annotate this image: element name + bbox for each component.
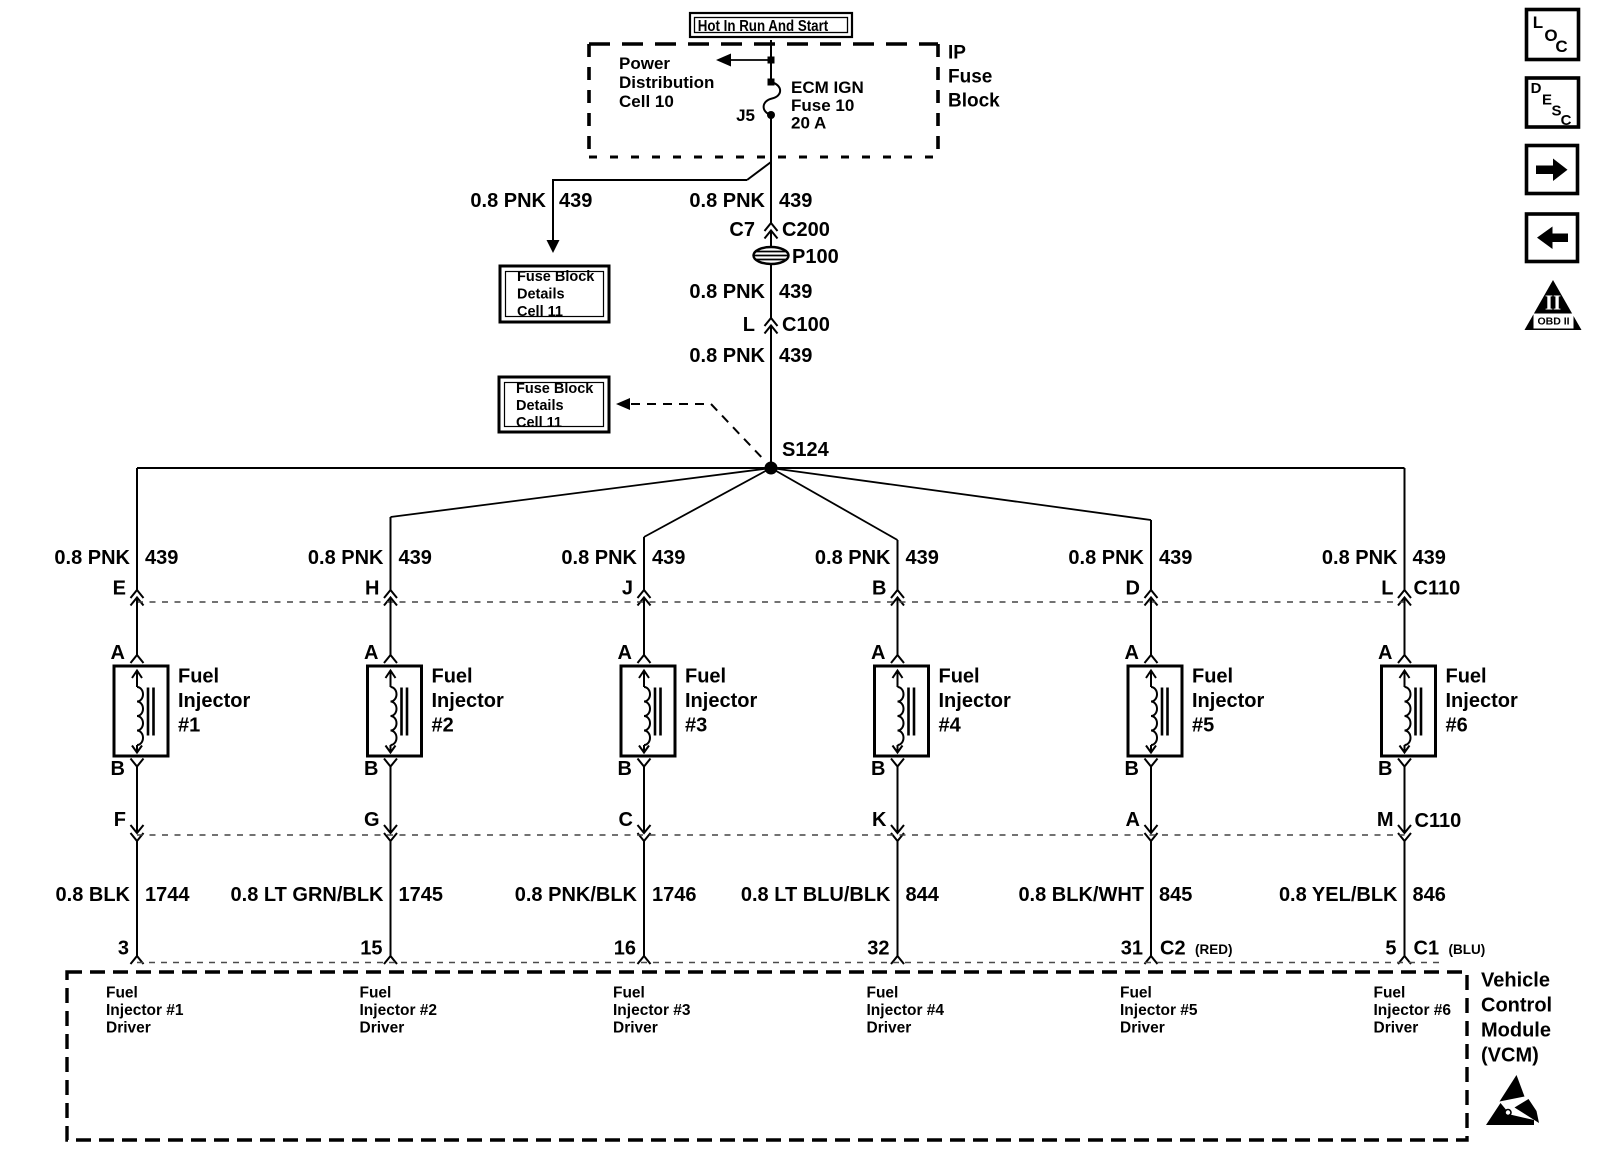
branch 3 feed wire (PNK 439) xyxy=(643,537,645,590)
splice S124 xyxy=(765,462,778,475)
fuel injector #2 core bars xyxy=(400,688,403,736)
fuel injector #6 internal coil xyxy=(1400,671,1410,679)
svg-text:Injector #3: Injector #3 xyxy=(613,1002,691,1019)
svg-text:A: A xyxy=(1125,642,1139,664)
svg-text:Fuel: Fuel xyxy=(613,985,645,1002)
svg-text:Fuel: Fuel xyxy=(360,985,392,1002)
Fuse Block Details Cell 11 box (upper) xyxy=(500,266,609,322)
svg-text:A: A xyxy=(1126,809,1140,831)
svg-text:Injector: Injector xyxy=(1192,690,1264,712)
svg-text:H: H xyxy=(365,578,379,600)
svg-text:0.8 PNK: 0.8 PNK xyxy=(689,190,765,212)
wire between C200 and P100 xyxy=(770,231,772,249)
fan wire from S124 to branch 5 xyxy=(771,468,1151,520)
svg-text:D: D xyxy=(1531,80,1542,97)
IP Fuse Block dashed box xyxy=(589,42,938,46)
fuse ECM IGN Fuse 10 20A, junction J5 xyxy=(768,79,775,86)
svg-text:0.8 PNK: 0.8 PNK xyxy=(815,547,891,569)
next page arrow box xyxy=(1527,146,1578,194)
branch 1 driver wire to VCM xyxy=(136,841,138,956)
svg-text:Cell 11: Cell 11 xyxy=(516,415,562,431)
svg-text:B: B xyxy=(871,758,885,780)
branch 4 driver wire to VCM xyxy=(897,841,899,956)
svg-text:32: 32 xyxy=(867,938,889,960)
arrow to power distribution xyxy=(729,59,771,61)
fan wire from S124 to branch 2 xyxy=(391,468,772,517)
svg-text:Block: Block xyxy=(948,91,1000,112)
wire between P100 and C100 xyxy=(770,264,772,280)
svg-text:1745: 1745 xyxy=(399,884,444,906)
svg-text:C200: C200 xyxy=(782,219,830,241)
wire trunk top into fuse xyxy=(770,40,772,82)
svg-text:C110: C110 xyxy=(1415,810,1462,832)
svg-text:Module: Module xyxy=(1481,1020,1551,1042)
fuel injector #6 core bars xyxy=(1414,688,1417,736)
branch 1 feed wire (PNK 439) xyxy=(136,468,138,590)
fan wire from S124 to branch 4 xyxy=(771,468,898,540)
svg-text:#1: #1 xyxy=(178,715,200,737)
svg-text:439: 439 xyxy=(1413,547,1446,569)
svg-text:20 A: 20 A xyxy=(791,114,826,133)
svg-text:0.8 PNK: 0.8 PNK xyxy=(1322,547,1398,569)
svg-text:L: L xyxy=(1381,578,1393,600)
branch 2 driver wire to VCM xyxy=(390,841,392,956)
svg-text:S124: S124 xyxy=(782,439,830,461)
svg-text:#2: #2 xyxy=(432,715,454,737)
branch 6 driver wire to VCM xyxy=(1404,841,1406,956)
svg-text:0.8 PNK: 0.8 PNK xyxy=(54,547,130,569)
branch 4 feed wire (PNK 439) xyxy=(897,540,899,590)
wire trunk below fuse xyxy=(770,115,772,223)
svg-text:0.8 BLK/WHT: 0.8 BLK/WHT xyxy=(1018,884,1144,906)
svg-text:Fuse: Fuse xyxy=(948,67,992,88)
svg-text:439: 439 xyxy=(779,345,812,367)
branch 1 wire from injector to C110 bottom row xyxy=(136,767,138,834)
svg-text:Fuel: Fuel xyxy=(1120,985,1152,1002)
svg-text:#3: #3 xyxy=(685,715,707,737)
svg-text:IP: IP xyxy=(948,43,966,64)
svg-text:439: 439 xyxy=(652,547,685,569)
svg-text:A: A xyxy=(111,642,125,664)
svg-text:439: 439 xyxy=(906,547,939,569)
branch 4 terminal at VCM xyxy=(891,956,904,964)
svg-text:Power: Power xyxy=(619,54,670,73)
svg-text:439: 439 xyxy=(779,190,812,212)
svg-text:B: B xyxy=(364,758,378,780)
junction to power distribution arrow xyxy=(768,57,775,64)
fuel injector #1 box xyxy=(114,666,168,756)
fuel injector #4 internal coil xyxy=(893,671,903,679)
svg-text:A: A xyxy=(618,642,632,664)
branch 5 wire from C110 to injector pin A xyxy=(1150,598,1152,656)
svg-text:Details: Details xyxy=(516,398,564,414)
branch 5 wire from injector to C110 bottom row xyxy=(1150,767,1152,834)
svg-text:0.8 PNK: 0.8 PNK xyxy=(470,190,546,212)
svg-text:0.8 LT GRN/BLK: 0.8 LT GRN/BLK xyxy=(231,884,385,906)
svg-text:C110: C110 xyxy=(1414,578,1461,600)
svg-text:Fuse Block: Fuse Block xyxy=(517,269,595,285)
svg-text:Cell 11: Cell 11 xyxy=(517,304,563,320)
branch 6 wire from C110 to injector pin A xyxy=(1404,598,1406,656)
svg-text:#6: #6 xyxy=(1446,715,1468,737)
svg-text:ECM IGN: ECM IGN xyxy=(791,78,864,97)
svg-text:C: C xyxy=(619,809,633,831)
svg-text:Fuel: Fuel xyxy=(432,666,473,688)
svg-text:B: B xyxy=(618,758,632,780)
svg-text:#4: #4 xyxy=(939,715,962,737)
svg-text:Fuse Block: Fuse Block xyxy=(516,381,594,397)
svg-text:Hot In Run And Start: Hot In Run And Start xyxy=(698,18,829,35)
svg-text:Driver: Driver xyxy=(106,1020,151,1037)
svg-text:Control: Control xyxy=(1481,995,1552,1017)
svg-text:439: 439 xyxy=(1159,547,1192,569)
svg-text:1744: 1744 xyxy=(145,884,190,906)
ESD sensitive device symbol inside VCM xyxy=(1500,1075,1525,1102)
svg-text:Driver: Driver xyxy=(1120,1020,1165,1037)
svg-text:B: B xyxy=(111,758,125,780)
svg-text:A: A xyxy=(871,642,885,664)
svg-text:Injector: Injector xyxy=(939,690,1011,712)
svg-text:(VCM): (VCM) xyxy=(1481,1045,1539,1067)
bus wire from S124 across all branches xyxy=(137,467,1405,469)
svg-text:Driver: Driver xyxy=(867,1020,912,1037)
svg-text:0.8 YEL/BLK: 0.8 YEL/BLK xyxy=(1279,884,1398,906)
svg-text:B: B xyxy=(872,578,886,600)
svg-text:439: 439 xyxy=(779,281,812,303)
svg-text:(BLU): (BLU) xyxy=(1449,942,1486,957)
branch 5 feed wire (PNK 439) xyxy=(1150,520,1152,590)
fuel injector #2 internal coil xyxy=(386,671,396,679)
svg-text:F: F xyxy=(114,809,126,831)
branch 3 terminal at VCM xyxy=(638,956,651,964)
svg-text:Injector #2: Injector #2 xyxy=(360,1002,438,1019)
svg-text:1746: 1746 xyxy=(652,884,697,906)
fuel injector #4 box xyxy=(875,666,929,756)
svg-text:Injector: Injector xyxy=(685,690,757,712)
svg-text:Fuel: Fuel xyxy=(1374,985,1406,1002)
svg-text:L: L xyxy=(743,314,755,336)
svg-text:Fuel: Fuel xyxy=(1192,666,1233,688)
branch 3 driver wire to VCM xyxy=(643,841,645,956)
svg-text:0.8 PNK: 0.8 PNK xyxy=(561,547,637,569)
fuel injector #3 internal coil xyxy=(639,671,649,679)
wire between C100 and splice S124 xyxy=(770,326,772,469)
svg-text:B: B xyxy=(1378,758,1392,780)
svg-text:Injector #6: Injector #6 xyxy=(1374,1002,1452,1019)
svg-text:II: II xyxy=(1545,290,1561,314)
svg-text:Fuel: Fuel xyxy=(1446,666,1487,688)
fuel injector #3 core bars xyxy=(654,688,657,736)
svg-text:Driver: Driver xyxy=(360,1020,405,1037)
svg-text:Fuel: Fuel xyxy=(106,985,138,1002)
svg-text:Vehicle: Vehicle xyxy=(1481,970,1550,992)
svg-text:C: C xyxy=(1555,37,1567,56)
fuel injector #5 internal coil xyxy=(1146,671,1156,679)
branch 6 feed wire (PNK 439) xyxy=(1404,468,1406,590)
svg-text:Fuel: Fuel xyxy=(178,666,219,688)
svg-text:0.8 PNK: 0.8 PNK xyxy=(1068,547,1144,569)
Vehicle Control Module dashed box xyxy=(67,972,1467,1140)
svg-text:A: A xyxy=(364,642,378,664)
svg-text:G: G xyxy=(364,809,380,831)
svg-text:439: 439 xyxy=(559,190,592,212)
fuel injector #5 core bars xyxy=(1161,688,1164,736)
VCM connector dashed line xyxy=(137,962,1445,964)
svg-text:Injector: Injector xyxy=(178,690,250,712)
branch 6 wire from injector to C110 bottom row xyxy=(1404,767,1406,834)
fuel injector #5 box xyxy=(1128,666,1182,756)
svg-text:Injector #5: Injector #5 xyxy=(1120,1002,1198,1019)
branch 3 wire from injector to C110 bottom row xyxy=(643,767,645,834)
grommet P100 xyxy=(754,247,789,264)
fuel injector #6 box xyxy=(1382,666,1436,756)
connector L C100 pass-through xyxy=(765,318,778,326)
branch 1 wire from C110 to injector pin A xyxy=(136,598,138,656)
branch 2 wire from injector to C110 bottom row xyxy=(390,767,392,834)
previous page arrow box xyxy=(1527,214,1578,262)
svg-text:439: 439 xyxy=(145,547,178,569)
svg-text:E: E xyxy=(113,578,126,600)
svg-text:0.8 BLK: 0.8 BLK xyxy=(56,884,131,906)
svg-text:844: 844 xyxy=(906,884,940,906)
arrowhead into fuse block details box xyxy=(547,240,560,253)
power feed label Hot In Run And Start xyxy=(690,13,852,37)
svg-text:15: 15 xyxy=(360,938,382,960)
svg-text:Fuel: Fuel xyxy=(867,985,899,1002)
fuel injector #1 internal coil xyxy=(132,671,142,679)
svg-text:0.8 PNK: 0.8 PNK xyxy=(689,345,765,367)
svg-text:0.8 PNK: 0.8 PNK xyxy=(689,281,765,303)
branch 4 wire from injector to C110 bottom row xyxy=(897,767,899,834)
branch 3 wire from C110 to injector pin A xyxy=(643,598,645,656)
connector C110 top row dashed line xyxy=(137,601,1405,603)
svg-text:C1: C1 xyxy=(1414,938,1440,960)
svg-text:C: C xyxy=(1561,112,1572,129)
DESC navigation box xyxy=(1527,78,1579,127)
svg-text:Driver: Driver xyxy=(1374,1020,1419,1037)
svg-text:D: D xyxy=(1126,578,1140,600)
svg-text:C100: C100 xyxy=(782,314,830,336)
svg-text:C7: C7 xyxy=(729,219,755,241)
svg-text:Fuel: Fuel xyxy=(685,666,726,688)
svg-text:5: 5 xyxy=(1385,938,1396,960)
dashed reference arrow from S124 to fuse block details xyxy=(616,398,630,410)
svg-text:3: 3 xyxy=(118,938,129,960)
svg-text:(RED): (RED) xyxy=(1195,942,1233,957)
fan wire from S124 to branch 3 xyxy=(644,468,771,537)
svg-text:0.8 PNK/BLK: 0.8 PNK/BLK xyxy=(515,884,638,906)
branch 5 driver wire to VCM xyxy=(1150,841,1152,956)
fuel injector #3 box xyxy=(621,666,675,756)
svg-text:Injector: Injector xyxy=(1446,690,1518,712)
svg-text:Injector: Injector xyxy=(432,690,504,712)
svg-text:0.8 PNK: 0.8 PNK xyxy=(308,547,384,569)
svg-text:Distribution: Distribution xyxy=(619,73,714,92)
svg-text:P100: P100 xyxy=(792,246,839,268)
branch 2 wire from C110 to injector pin A xyxy=(390,598,392,656)
svg-text:16: 16 xyxy=(614,938,636,960)
svg-text:Cell 10: Cell 10 xyxy=(619,92,674,111)
svg-text:J: J xyxy=(622,578,633,600)
branch 5 terminal at VCM xyxy=(1145,956,1158,964)
svg-text:Injector #4: Injector #4 xyxy=(867,1002,945,1019)
svg-text:Driver: Driver xyxy=(613,1020,658,1037)
svg-text:OBD II: OBD II xyxy=(1537,316,1569,328)
svg-text:#5: #5 xyxy=(1192,715,1214,737)
branch 6 terminal at VCM xyxy=(1398,956,1411,964)
fuel injector #1 core bars xyxy=(147,688,150,736)
svg-text:846: 846 xyxy=(1413,884,1446,906)
svg-text:C2: C2 xyxy=(1160,938,1186,960)
svg-text:0.8 LT BLU/BLK: 0.8 LT BLU/BLK xyxy=(741,884,891,906)
svg-text:Details: Details xyxy=(517,287,565,303)
svg-text:Fuel: Fuel xyxy=(939,666,980,688)
svg-text:Fuse 10: Fuse 10 xyxy=(791,96,854,115)
svg-text:Injector #1: Injector #1 xyxy=(106,1002,184,1019)
OBD II symbol xyxy=(1525,280,1582,330)
fuel injector #2 box xyxy=(368,666,422,756)
branch 2 feed wire (PNK 439) xyxy=(390,517,392,590)
svg-text:439: 439 xyxy=(399,547,432,569)
branch 1 terminal at VCM xyxy=(131,956,144,964)
LOC navigation box xyxy=(1527,10,1579,60)
svg-text:A: A xyxy=(1378,642,1392,664)
svg-text:M: M xyxy=(1377,809,1394,831)
svg-text:L: L xyxy=(1533,13,1543,32)
Fuse Block Details Cell 11 box (lower) xyxy=(499,377,609,432)
svg-text:31: 31 xyxy=(1121,938,1143,960)
svg-text:B: B xyxy=(1125,758,1139,780)
branch 4 wire from C110 to injector pin A xyxy=(897,598,899,656)
svg-text:845: 845 xyxy=(1159,884,1192,906)
wire branch to fuse block details cell 11 xyxy=(747,162,771,180)
svg-text:J5: J5 xyxy=(736,106,755,125)
fuel injector #4 core bars xyxy=(907,688,910,736)
branch 2 terminal at VCM xyxy=(384,956,397,964)
connector C110 bottom row dashed line xyxy=(137,834,1405,836)
svg-text:K: K xyxy=(872,809,887,831)
connector C7 C200 pass-through xyxy=(765,223,778,231)
